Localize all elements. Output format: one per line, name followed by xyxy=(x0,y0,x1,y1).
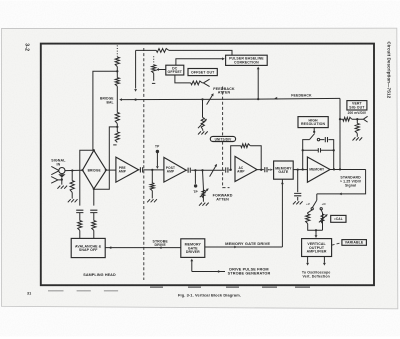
box VARIABLE xyxy=(342,240,367,246)
resistor R-preamp shunt xyxy=(147,170,157,202)
capacitor C-acamp in xyxy=(226,167,228,172)
pot arrow units/div shunt xyxy=(198,119,207,128)
resistor R-offsetout xyxy=(191,81,203,85)
op-amp AC AMP xyxy=(230,156,257,181)
resistor R-dcoffset xyxy=(152,65,156,73)
label SAMPLING HEAD xyxy=(83,273,116,277)
node postamp output xyxy=(194,169,196,171)
resistor R-bal3 xyxy=(115,112,119,123)
label To Oscilloscope Vert. Deflection xyxy=(302,271,331,279)
pot arrow FEEDBACK ATTEN xyxy=(207,93,214,104)
wire bal ladder seg1 xyxy=(116,67,118,78)
wire: bridge output xyxy=(106,169,116,171)
dotted top of bal ladder xyxy=(116,45,118,56)
caption Fig. 3-1 xyxy=(178,293,241,298)
op-amp POST AMP xyxy=(164,157,186,182)
node preamp output xyxy=(151,169,153,171)
high resolution switch xyxy=(303,128,334,170)
resistor R-bal2 xyxy=(115,78,119,87)
resistor R-vso series xyxy=(343,117,352,121)
wire: drive pulse input xyxy=(190,259,225,273)
resistor R-vso shunt xyxy=(353,119,363,140)
minus supply mark bal ladder xyxy=(113,144,116,146)
bridge diamond xyxy=(81,149,107,190)
box HIGH RESOLUTION xyxy=(298,117,328,128)
dashed boundary sampling head xyxy=(143,48,145,280)
forward atten shunt xyxy=(199,170,209,205)
box CAL xyxy=(331,215,346,222)
wire: offset loop top xyxy=(136,50,232,55)
wire: loop drop with arrow to bus xyxy=(134,50,137,91)
offset out fork xyxy=(203,79,209,86)
label STANDARD signal xyxy=(340,175,362,187)
pot arrow forward atten shunt xyxy=(200,188,209,197)
wire bal ladder seg2 xyxy=(116,86,118,112)
capacitor C-memory feedback xyxy=(302,148,335,169)
wire: bal branch to bridge top xyxy=(93,71,117,150)
label FEEDBACK xyxy=(291,93,312,97)
dotted top of dc-offset pot xyxy=(153,56,155,64)
wire: acamp output xyxy=(257,167,274,172)
wire: memory output xyxy=(330,168,366,170)
box MEMORY GATE xyxy=(274,161,294,179)
wire: standard signal path xyxy=(317,169,366,195)
label STROBE DRIVE xyxy=(153,239,169,247)
capacitor C-strobe-right xyxy=(90,210,97,220)
op-amp PRE AMP xyxy=(116,157,139,182)
box PULSER BASELINE CORRECTION xyxy=(226,55,268,65)
bleed dashes below frame xyxy=(48,287,310,291)
resistor R-bal4 xyxy=(115,132,119,142)
label BRIDGE BAL xyxy=(100,97,114,105)
capacitor C-gate shunt xyxy=(293,170,303,205)
page number 3-2 (rotated, top-left) xyxy=(24,43,30,51)
wire: vert sig out tap xyxy=(340,118,363,120)
wiper arrow to DC OFFSET xyxy=(156,68,166,71)
vert sig out connector fork xyxy=(363,116,367,122)
wire below dc-offset pot xyxy=(153,73,155,81)
wire: DC OFFSET bottom to offset-out fork xyxy=(175,75,204,83)
feedback bus arrow into bridge bal pot xyxy=(119,98,122,101)
variable resistor to ground (units/div) xyxy=(198,99,208,134)
wire: memory gate output xyxy=(293,168,307,170)
box DC OFFSET xyxy=(166,65,184,75)
wire: DC OFFSET top to pulser box xyxy=(176,57,225,65)
wire: memory gate drive line xyxy=(205,246,283,249)
capacitor C-postamp out xyxy=(186,168,202,173)
label FEEDBACK ATTEN xyxy=(213,87,235,95)
resistor R-loop xyxy=(156,49,169,53)
dashed gang line UNITS/DIV xyxy=(223,87,230,188)
signal in shield to ground xyxy=(51,177,67,189)
resistor R-bal1 xyxy=(115,57,119,67)
wire: memory gate drive stem xyxy=(281,179,284,247)
wire bal ladder seg3 xyxy=(116,124,118,132)
wire: feedback bus drop to memory output xyxy=(339,98,341,170)
op-amp MEMORY xyxy=(307,157,330,182)
box VERTICAL OUTPUT AMPLIFIER xyxy=(302,239,332,257)
box VERT SIG OUT xyxy=(347,101,367,116)
ac amp feedback loop xyxy=(231,146,262,170)
resistor R-strobe-left xyxy=(78,221,82,239)
resistor R-acamp feedback xyxy=(241,144,251,148)
box MEMORY GATE DRIVER xyxy=(181,239,205,258)
capacitor C-preamp out xyxy=(139,167,164,172)
diagram border frame xyxy=(41,44,374,286)
wire: bridge bottom to right strobe column xyxy=(93,189,95,206)
capacitor C-strobe-left xyxy=(76,210,83,220)
signal in connector xyxy=(51,166,65,177)
cal switch xyxy=(306,194,326,210)
wire: postamp to ac amp xyxy=(201,169,230,171)
wire: bridge top jog to left strobe column xyxy=(80,150,94,205)
wire: bal branch around bridge xyxy=(94,127,118,189)
resistor R-cal left branch xyxy=(306,210,316,231)
wire: signal in to bridge xyxy=(65,169,83,171)
test point TP postamp xyxy=(193,170,198,194)
pot arrow to cal xyxy=(319,214,328,222)
minus supply mark dc-offset xyxy=(152,82,155,84)
box OFFSET OUT xyxy=(188,69,217,76)
knob UNITS/DIV xyxy=(210,136,235,141)
test point TP preamp xyxy=(155,145,160,169)
label DRIVE PULSE FROM STROBE GENERATOR xyxy=(228,267,271,275)
resistor R-strobe-right xyxy=(92,221,96,239)
header Circuit Description-7S12 (rotated, right edge) xyxy=(387,42,392,99)
variable resistor cal right branch xyxy=(316,210,324,231)
bottom-left page mark xyxy=(27,291,31,295)
label SIGNAL IN xyxy=(51,159,66,167)
dashed link to VARIABLE xyxy=(332,243,342,246)
box AVALANCHE & SNAP OFF xyxy=(71,238,105,257)
wire: strobe drive line xyxy=(105,246,181,249)
label MEMORY GATE DRIVE xyxy=(225,241,270,246)
wire: feedback bus xyxy=(121,98,340,101)
wire: pulser box input from bus xyxy=(257,67,260,100)
pot arrow forward atten series xyxy=(210,164,217,177)
resistor R-input shunt xyxy=(68,171,78,203)
wire: into vertical output amplifier xyxy=(315,229,318,238)
label FORWARD ATTEN xyxy=(213,194,233,202)
output arrows to oscilloscope xyxy=(306,257,326,266)
arrow on feedback bus (left) xyxy=(275,97,278,100)
